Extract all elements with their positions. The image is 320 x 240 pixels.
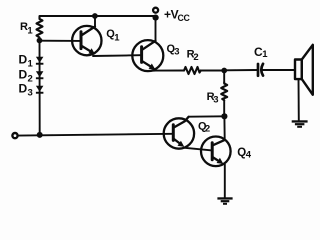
svg-text:2: 2 [205,123,210,134]
label Q2 [198,120,210,134]
junction dot: input / diode chain [37,132,43,138]
junction dot: rail / Q1 collector [92,13,98,19]
wire: R2 to node A [201,70,224,72]
resistor R2 [184,67,201,74]
label R3 [207,91,219,106]
label C1 [254,45,268,60]
wire: diode chain (R1 node to input node) [39,41,41,135]
junction dot: node B (R3/Q2 collector/Q4 collector) [221,113,227,119]
transistor Q3 [132,40,163,71]
label R2 [187,48,199,63]
label D2 [19,68,33,85]
label R1 [20,21,33,37]
transistor Q1 [72,26,101,55]
label +VCC [164,8,191,24]
svg-text:1: 1 [114,32,120,43]
wire: Q1 emitter to Q3 base [93,54,140,57]
resistor R1 [37,17,43,41]
svg-text:CC: CC [178,13,191,23]
transistor Q4 [201,137,231,167]
svg-text:1: 1 [28,59,34,70]
label D3 [19,82,33,99]
input terminal [12,133,17,138]
junction dot: node A (R2/R3/C1) [221,68,227,74]
svg-text:D: D [19,53,28,67]
label Q1 [106,28,120,43]
label Q4 [237,147,251,160]
wire: Q2 emitter to Q4 base [185,148,212,151]
svg-text:D: D [19,82,28,96]
wire: node A to R3 [223,71,225,83]
svg-text:2: 2 [193,52,198,63]
wire: R3 to node B [223,100,225,116]
wire: Q3 collector to +VCC node [155,18,157,41]
transistor Q2 [164,117,194,149]
diode D2 [36,71,44,79]
svg-text:1: 1 [262,49,268,60]
wire: +VCC top rail [40,15,156,17]
diode D3 [36,86,44,94]
svg-text:4: 4 [246,149,252,160]
ground (speaker) [292,120,308,128]
wire: node B to Q4 collector [223,116,225,140]
junction dot: R1 bottom / diode chain / Q1 base [37,38,43,44]
power terminal +VCC [153,8,158,13]
wire: C1 to speaker [263,69,295,71]
speaker LS1 [295,45,313,95]
svg-text:3: 3 [213,95,218,106]
wire: Q3 emitter to R2 [149,70,185,72]
wire: input to Q2 base [18,134,174,136]
wire: Q4 emitter to ground [224,164,226,197]
svg-text:1: 1 [27,26,33,37]
diode D1 [36,57,44,65]
label D1 [19,53,34,70]
label Q3 [167,43,180,57]
wire: speaker to ground [298,79,300,120]
wire: Q1 collector to rail [94,16,96,27]
junction dot: rail / Q3 collector / +VCC [153,15,159,21]
svg-text:3: 3 [174,46,179,57]
wire: R1 node to Q1 base [40,40,81,42]
svg-text:2: 2 [28,74,33,85]
ground (Q4 emitter) [217,197,232,205]
svg-text:D: D [19,68,28,82]
svg-text:3: 3 [28,88,33,99]
resistor R3 [221,82,227,100]
wire: node B to Q2 collector [189,115,225,117]
svg-text:+V: +V [164,8,179,22]
wire: node A to C1 [224,69,257,71]
capacitor C1 [258,64,263,76]
